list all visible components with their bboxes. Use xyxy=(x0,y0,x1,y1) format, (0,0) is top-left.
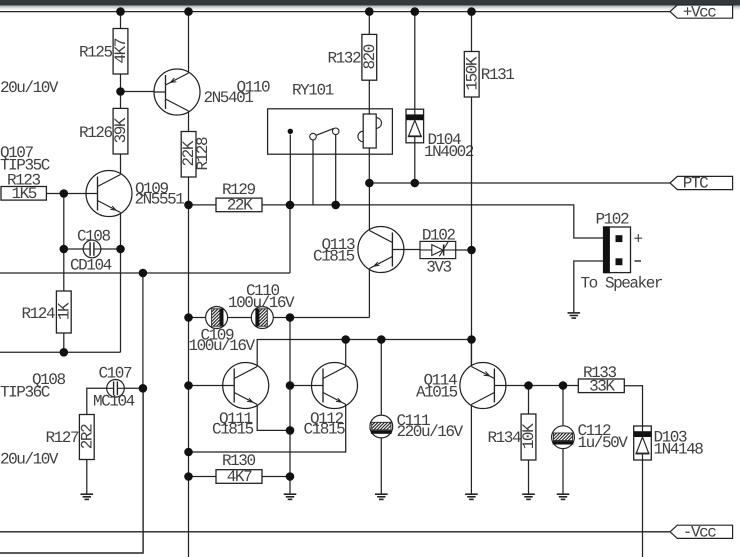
svg-text:3V3: 3V3 xyxy=(426,258,451,276)
wire xyxy=(380,340,382,416)
transistor Q110 2N5401 xyxy=(154,69,270,115)
PTC net wire xyxy=(369,182,670,184)
wire xyxy=(228,317,252,319)
wire xyxy=(528,386,530,415)
resistor R130 xyxy=(216,452,262,486)
diode D102 xyxy=(420,241,456,258)
junction dot xyxy=(184,313,193,322)
wire xyxy=(574,261,616,313)
svg-text:C1815: C1815 xyxy=(304,421,346,439)
svg-text:R132: R132 xyxy=(328,50,361,68)
wire xyxy=(64,248,83,250)
svg-text:1N4148: 1N4148 xyxy=(654,440,704,458)
svg-text:CD104: CD104 xyxy=(70,257,112,275)
label 220u/10V upper xyxy=(0,79,59,97)
svg-text:TIP36C: TIP36C xyxy=(0,384,50,402)
wire xyxy=(471,12,473,52)
resistor R126 xyxy=(79,108,130,154)
label D102 xyxy=(422,226,455,276)
relay coil xyxy=(358,114,382,148)
svg-text:39K: 39K xyxy=(112,117,130,143)
svg-text:P102: P102 xyxy=(596,210,629,228)
wire xyxy=(368,148,370,183)
ground xyxy=(375,494,388,499)
label Q108 TIP36C xyxy=(0,371,65,402)
junction dot xyxy=(116,245,125,254)
-Vcc rail wire xyxy=(0,531,670,533)
svg-text:D102: D102 xyxy=(422,226,455,244)
wire xyxy=(414,143,416,183)
svg-text:To Speaker: To Speaker xyxy=(581,274,663,292)
wire xyxy=(189,205,616,238)
label C109 xyxy=(189,326,256,355)
svg-text:R129: R129 xyxy=(222,181,255,199)
wire xyxy=(345,340,347,367)
svg-text:PTC: PTC xyxy=(683,175,708,193)
junction dot xyxy=(286,381,295,390)
svg-text:C1815: C1815 xyxy=(212,421,254,439)
label C107 xyxy=(93,364,135,410)
svg-text:R124: R124 xyxy=(22,305,55,323)
power flag +Vcc xyxy=(670,3,733,21)
wire xyxy=(290,385,312,387)
wire xyxy=(368,269,370,318)
ground xyxy=(465,494,478,499)
svg-text:+Vcc: +Vcc xyxy=(683,3,716,21)
wire xyxy=(63,333,65,352)
wire xyxy=(188,177,190,205)
junction dot xyxy=(377,335,386,344)
label C112 xyxy=(578,422,629,452)
wire xyxy=(188,111,190,132)
label C110 xyxy=(228,282,295,312)
wire xyxy=(120,74,122,108)
wire xyxy=(470,405,472,495)
junction dot xyxy=(60,189,69,198)
wire xyxy=(562,386,564,426)
wire xyxy=(120,154,122,175)
junction dot xyxy=(116,87,125,96)
wire xyxy=(189,385,224,387)
resistor R124 xyxy=(22,291,74,333)
junction dot xyxy=(60,348,69,357)
svg-text:22K: 22K xyxy=(227,197,253,215)
wire xyxy=(528,460,530,494)
wire xyxy=(257,340,471,367)
resistor R129 xyxy=(216,181,262,215)
wire xyxy=(380,438,382,494)
svg-text:A1015: A1015 xyxy=(416,384,458,402)
wire xyxy=(335,135,337,205)
svg-text:R125: R125 xyxy=(79,44,112,62)
label Q107 TIP35C xyxy=(0,144,50,174)
svg-text:100u/16V: 100u/16V xyxy=(228,294,295,312)
svg-text:+: + xyxy=(634,230,643,248)
svg-text:R127: R127 xyxy=(46,429,79,447)
capacitor C110 xyxy=(251,307,273,329)
wire xyxy=(0,351,121,353)
svg-text:C107: C107 xyxy=(99,364,132,382)
wire xyxy=(505,385,578,387)
svg-text:20u/10V: 20u/10V xyxy=(0,79,59,97)
wire xyxy=(289,205,291,273)
wire xyxy=(642,460,644,557)
junction dot xyxy=(184,7,193,16)
label 220u/10V lower xyxy=(0,451,59,469)
label D103 xyxy=(654,429,704,459)
svg-text:10K: 10K xyxy=(520,423,538,449)
transistor Q111 C1815 xyxy=(212,363,269,439)
wire xyxy=(188,12,190,73)
resistor R131 xyxy=(463,52,514,98)
wire xyxy=(87,388,107,414)
svg-text:R126: R126 xyxy=(79,124,112,142)
junction dot xyxy=(559,381,568,390)
junction dot xyxy=(411,7,420,16)
junction dot xyxy=(184,201,193,210)
resistor R134 xyxy=(488,414,539,460)
wire xyxy=(189,317,206,319)
capacitor C107 xyxy=(107,380,125,398)
diode D103 xyxy=(634,426,652,460)
wire xyxy=(142,273,144,388)
capacitor C111 xyxy=(370,415,393,438)
svg-text:4K7: 4K7 xyxy=(227,468,252,486)
junction dot xyxy=(286,472,295,481)
svg-text:R134: R134 xyxy=(488,429,521,447)
bottom frame wire xyxy=(0,388,143,553)
transistor Q109 2N5551 xyxy=(86,171,184,217)
resistor R128 xyxy=(180,132,212,178)
wire xyxy=(368,183,370,231)
svg-text:-Vcc: -Vcc xyxy=(683,524,716,542)
wire xyxy=(188,205,190,557)
resistor R127 xyxy=(46,415,97,460)
power flag -Vcc xyxy=(670,524,733,542)
wire xyxy=(273,317,369,319)
wire xyxy=(63,194,65,292)
svg-text:R133: R133 xyxy=(583,364,616,382)
resistor R132 xyxy=(328,34,379,80)
+Vcc rail wire xyxy=(0,11,670,13)
junction dot xyxy=(365,7,374,16)
svg-text:820: 820 xyxy=(361,44,379,69)
ground xyxy=(522,494,535,499)
wire xyxy=(121,91,155,93)
svg-text:R131: R131 xyxy=(481,66,514,84)
wire xyxy=(289,135,291,205)
wire xyxy=(289,477,291,495)
ground xyxy=(557,494,570,499)
ground xyxy=(81,494,94,499)
svg-text:20u/10V: 20u/10V xyxy=(0,451,59,469)
wire xyxy=(403,249,420,251)
diode D104 xyxy=(406,109,424,143)
power flag PTC xyxy=(670,175,733,193)
wire xyxy=(470,340,472,367)
svg-text:R128: R128 xyxy=(194,137,212,170)
junction dot xyxy=(139,269,148,278)
wire xyxy=(86,460,88,495)
junction dot xyxy=(139,384,148,393)
junction dot xyxy=(184,448,193,457)
junction dot xyxy=(286,201,295,210)
junction dot xyxy=(116,7,125,16)
wire xyxy=(624,386,642,426)
transistor Q112 C1815 xyxy=(304,363,358,439)
junction dot xyxy=(467,335,476,344)
wire xyxy=(262,476,290,478)
svg-text:C1815: C1815 xyxy=(313,248,355,266)
wire xyxy=(120,12,122,29)
junction dot xyxy=(467,246,476,255)
label plus xyxy=(634,230,643,248)
svg-text:220u/16V: 220u/16V xyxy=(397,423,464,441)
resistor R123 xyxy=(1,171,46,203)
top toolbar bar xyxy=(0,0,740,11)
label To Speaker xyxy=(581,274,663,292)
svg-text:MC104: MC104 xyxy=(93,393,135,411)
wire xyxy=(120,213,122,353)
transistor Q113 C1815 xyxy=(313,227,404,273)
resistor R133 xyxy=(578,364,624,395)
connector P102 xyxy=(596,210,631,273)
svg-text:100u/16V: 100u/16V xyxy=(189,337,256,355)
svg-text:1u/50V: 1u/50V xyxy=(578,434,629,452)
junction dot xyxy=(411,179,420,188)
relay blade xyxy=(316,129,333,136)
transistor Q114 A1015 xyxy=(416,363,506,409)
svg-text:C108: C108 xyxy=(77,227,110,245)
svg-text:4K7: 4K7 xyxy=(112,38,130,63)
ground xyxy=(568,313,581,318)
capacitor C109 xyxy=(206,307,228,329)
junction dot xyxy=(184,472,193,481)
junction dot xyxy=(60,245,69,254)
wire xyxy=(368,12,370,35)
junction dot xyxy=(524,381,533,390)
svg-text:TIP35C: TIP35C xyxy=(0,157,50,175)
relay contact pin xyxy=(288,129,293,134)
relay contact B xyxy=(332,128,339,135)
wire xyxy=(414,12,416,110)
wire xyxy=(46,193,86,195)
svg-text:1K: 1K xyxy=(55,302,73,320)
wire xyxy=(189,405,346,453)
svg-text:2N5551: 2N5551 xyxy=(135,191,185,209)
svg-text:2R2: 2R2 xyxy=(78,424,96,449)
junction dot xyxy=(184,381,193,390)
svg-text:RY101: RY101 xyxy=(292,81,334,99)
wire xyxy=(368,80,370,114)
svg-text:R130: R130 xyxy=(222,452,255,470)
junction dot xyxy=(286,426,295,435)
relay contact A xyxy=(310,133,317,140)
junction dot xyxy=(286,313,295,322)
wire xyxy=(456,249,472,251)
label C108 xyxy=(70,227,112,274)
svg-text:2N5401: 2N5401 xyxy=(204,89,254,107)
capacitor C112 xyxy=(552,426,575,449)
wire xyxy=(471,97,473,367)
wire xyxy=(101,248,121,250)
junction dot xyxy=(331,201,340,210)
wire xyxy=(289,318,291,477)
junction dot xyxy=(467,7,476,16)
svg-text:150K: 150K xyxy=(463,56,481,90)
wire xyxy=(562,449,564,495)
ground xyxy=(284,494,297,499)
resistor R125 xyxy=(79,29,130,75)
relay RY101 box xyxy=(268,81,393,154)
label minus xyxy=(635,260,642,262)
svg-text:1N4002: 1N4002 xyxy=(424,143,474,161)
label C111 xyxy=(397,412,464,441)
wire xyxy=(124,387,143,389)
junction dot xyxy=(365,179,374,188)
junction dot xyxy=(341,335,350,344)
capacitor C108 xyxy=(83,240,101,258)
wire xyxy=(257,405,290,431)
label D104 xyxy=(424,131,474,161)
wire xyxy=(0,272,290,274)
wire xyxy=(189,476,216,478)
wire xyxy=(312,140,314,205)
